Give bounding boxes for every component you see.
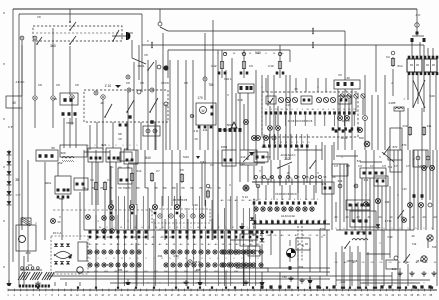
dash box 40 xyxy=(152,209,210,223)
wire ext15 xyxy=(147,188,149,240)
wire v12 xyxy=(253,199,255,230)
wire e2 xyxy=(34,100,36,128)
switch r5 xyxy=(383,153,385,155)
wire lv3 xyxy=(65,282,67,286)
motor box 350 xyxy=(16,225,36,251)
diode chain 2 xyxy=(7,191,12,195)
wire e5 xyxy=(102,99,104,125)
wire jh3 xyxy=(154,182,156,204)
svg-text:741: 741 xyxy=(388,165,393,169)
cluster gauge b xyxy=(316,97,321,102)
wire vz11 xyxy=(301,226,303,262)
wire e4 xyxy=(71,99,73,125)
wire z10 xyxy=(140,122,142,150)
switch horn xyxy=(112,40,114,42)
conn z6 xyxy=(150,120,153,123)
coil 409 xyxy=(62,157,74,159)
wire jv5 xyxy=(164,219,166,240)
wire vz7 xyxy=(391,272,393,286)
svg-text:F8 F8: F8 F8 xyxy=(161,81,169,85)
wire jh5 xyxy=(201,163,203,213)
wire gv ext2 xyxy=(295,78,297,92)
wire vy19 xyxy=(409,150,411,172)
wire r drop3 xyxy=(417,75,419,104)
wire f10 drop xyxy=(279,70,281,78)
conn bar 212a xyxy=(252,181,322,183)
wire vx11 xyxy=(333,142,335,160)
ignition box Z10 xyxy=(84,90,168,122)
node F conn x303 b xyxy=(312,43,314,48)
panel top edge xyxy=(168,49,290,51)
lamp row M4 xyxy=(164,250,168,254)
svg-text:35: 35 xyxy=(15,178,19,182)
conn z4 xyxy=(128,115,131,118)
connector I2 xyxy=(69,98,72,102)
connector zc3 xyxy=(94,91,98,95)
switch S2 xyxy=(69,43,71,45)
wire v10 xyxy=(239,160,241,182)
wire ov7 xyxy=(389,246,391,258)
wire v9 xyxy=(225,160,227,230)
wire hv11 xyxy=(429,100,431,150)
wire vx5 xyxy=(225,70,227,160)
wire f2w xyxy=(207,125,209,150)
wire vy6 xyxy=(381,186,383,230)
svg-text:ND: ND xyxy=(118,132,122,136)
wire vx8 xyxy=(273,75,275,160)
wire fv4 xyxy=(162,33,164,150)
wire j2v4 xyxy=(281,185,283,200)
wire vx2 xyxy=(192,60,194,150)
coil 859 xyxy=(352,239,368,241)
lamp right x xyxy=(358,128,363,133)
wire m bund1 xyxy=(55,271,330,273)
svg-text:C H: C H xyxy=(346,165,350,168)
lamp k1 xyxy=(408,203,413,208)
horn H1 xyxy=(112,35,126,37)
lamp j2 xyxy=(129,204,134,209)
wire jv6 xyxy=(175,219,177,240)
node F conn x303 a xyxy=(312,29,314,34)
link h4 xyxy=(84,151,110,153)
wire drop x376 xyxy=(375,45,377,92)
link h7 xyxy=(84,229,226,231)
connector r3 xyxy=(426,156,430,160)
wire j2v7 xyxy=(305,185,307,200)
wire fv3 xyxy=(147,60,149,150)
fuse F8x xyxy=(180,175,183,182)
svg-text:59: 59 xyxy=(51,146,55,150)
wire kv4 xyxy=(361,178,363,230)
wire m bund4 xyxy=(110,282,260,284)
connector K3 xyxy=(158,22,162,26)
wire vy18 xyxy=(401,150,403,172)
wire vx3 xyxy=(212,20,214,150)
svg-text:F7: F7 xyxy=(156,169,160,173)
lamp h2 xyxy=(345,116,350,121)
wire m bund2 xyxy=(48,275,392,277)
link h9 xyxy=(366,253,390,255)
gnd b4 xyxy=(37,281,39,283)
wire z9 xyxy=(126,122,128,150)
bridge d2 xyxy=(60,243,64,246)
link h5 xyxy=(336,229,414,231)
svg-text:F8: F8 xyxy=(140,81,144,85)
wire w1 xyxy=(21,40,23,82)
ruler stubs 2 xyxy=(260,285,263,288)
wire ov4 xyxy=(365,230,367,286)
wire nv5 xyxy=(261,244,263,268)
connector O5 xyxy=(394,256,398,260)
lamp g4 xyxy=(264,136,269,141)
wire gv6 xyxy=(277,106,279,125)
svg-text:310: 310 xyxy=(341,280,346,284)
lamp g2 xyxy=(252,136,257,141)
wire fv6 xyxy=(177,60,179,150)
wire ext8 xyxy=(235,93,237,150)
wire z7 xyxy=(96,122,98,148)
wiper motor xyxy=(200,107,207,114)
svg-text:40: 40 xyxy=(54,97,58,101)
wire vy4 xyxy=(365,150,367,230)
wire vy11 xyxy=(429,150,431,200)
switch r8 xyxy=(344,247,346,249)
wire v34 xyxy=(319,276,321,286)
wire m bund3 xyxy=(60,278,330,280)
switch 212 xyxy=(278,162,292,168)
wire vz2 xyxy=(351,252,353,286)
svg-text:614: 614 xyxy=(397,64,402,68)
relay 614 pins bot xyxy=(408,72,411,75)
svg-text:50: 50 xyxy=(12,101,16,105)
wire iv2 xyxy=(44,162,46,230)
fuse F13 xyxy=(408,128,411,135)
svg-text:J: J xyxy=(403,99,404,101)
conn pair f10 xyxy=(276,72,279,75)
wire kv5 xyxy=(369,178,371,230)
wire comb low xyxy=(117,231,119,286)
wire j2v6 xyxy=(297,185,299,200)
wire v2 xyxy=(109,150,111,205)
wire vx0 xyxy=(133,62,135,150)
wire e8 xyxy=(75,118,77,148)
conn O1 xyxy=(353,219,356,222)
wire gv1 xyxy=(231,58,233,150)
wire kv12 xyxy=(425,150,427,230)
wire hv2 xyxy=(344,89,346,115)
relay K xyxy=(240,150,257,165)
res rail xyxy=(20,269,42,271)
wire ov6 xyxy=(381,230,383,260)
relay H1 xyxy=(334,80,360,89)
res pins xyxy=(19,285,21,288)
wire vy1 xyxy=(343,164,345,222)
wire vy12 xyxy=(436,150,438,286)
wiper box xyxy=(196,103,216,125)
wire vy17 xyxy=(393,150,395,164)
wire f2 drop xyxy=(392,69,394,96)
bridge d4b xyxy=(66,261,70,264)
wire j2v1 xyxy=(257,185,259,200)
connector pair d1 xyxy=(411,38,414,42)
wire gv5 xyxy=(269,106,271,125)
wire v19 xyxy=(315,145,317,193)
bridge d4 xyxy=(60,261,64,264)
box 763 xyxy=(118,168,132,184)
wire nv6 xyxy=(270,230,272,255)
wire jv9 xyxy=(211,219,213,240)
conn row M5 xyxy=(165,230,168,233)
cluster pins 2 xyxy=(332,127,335,130)
connector E4 xyxy=(101,95,105,99)
svg-text:A O: A O xyxy=(416,13,421,17)
wire vz5 xyxy=(375,230,377,286)
wire vx7 xyxy=(267,75,269,106)
wire bus 15 y31 xyxy=(168,30,345,32)
wire z11 xyxy=(154,122,156,150)
wire vy2 xyxy=(351,204,353,222)
diode rr xyxy=(376,224,380,228)
wire kv6 xyxy=(377,178,379,230)
relay 783 xyxy=(55,176,71,194)
wire gv ext5 xyxy=(325,78,327,92)
wire bus 15a y45 xyxy=(142,44,376,46)
gnd tri a xyxy=(125,282,130,285)
wire 614 up1 xyxy=(411,42,413,56)
wire vy7 xyxy=(389,186,391,246)
wire oh2 xyxy=(360,282,420,284)
diode 212b xyxy=(260,230,264,233)
wire jh4 xyxy=(176,183,178,204)
wire gv7 xyxy=(269,131,271,160)
connector k3 xyxy=(428,203,432,207)
box 757 xyxy=(248,246,260,256)
lamp row N3 xyxy=(222,263,226,267)
wire v15 xyxy=(279,160,281,186)
wire e1 xyxy=(21,82,23,96)
lamp col a2 xyxy=(110,216,115,221)
wire nv1 xyxy=(225,230,227,255)
gnd tri c xyxy=(259,282,264,285)
svg-text:F11: F11 xyxy=(427,124,432,128)
wire ov2 xyxy=(349,246,351,286)
fuse F11 xyxy=(422,128,425,135)
wire v8 xyxy=(217,150,219,230)
relay G1 xyxy=(238,84,254,93)
wire v26 xyxy=(175,240,177,286)
lamp row M2 xyxy=(88,250,92,254)
svg-text:870: 870 xyxy=(393,145,398,149)
wire v30 xyxy=(261,272,263,286)
wire vx10 xyxy=(321,142,323,160)
wire ext16 xyxy=(95,243,97,286)
svg-text:F2: F2 xyxy=(386,55,390,59)
link h1 xyxy=(336,155,358,157)
wire nv3 xyxy=(243,230,245,236)
wire ext6 xyxy=(212,150,214,240)
lamp row 212 xyxy=(254,207,258,211)
connector r10 xyxy=(354,184,358,188)
link h2 xyxy=(360,161,382,163)
wire ext5 xyxy=(204,150,206,206)
box 870 xyxy=(388,150,402,160)
box 310 xyxy=(386,260,398,269)
conn 15x xyxy=(69,256,72,259)
wire ext17 xyxy=(117,243,119,286)
wire hv9 xyxy=(407,108,409,150)
wire v31 xyxy=(279,272,281,286)
wire i left xyxy=(8,205,10,283)
wire 614 up3 xyxy=(427,48,429,56)
gnd tri d xyxy=(307,280,312,283)
wire vy8 xyxy=(397,150,399,258)
wire rb6 xyxy=(133,164,135,230)
lamp h4 xyxy=(364,141,370,147)
switch z3 xyxy=(149,111,151,113)
wire 540 mid xyxy=(128,162,265,164)
wire v13 xyxy=(261,230,263,240)
svg-text:5191: 5191 xyxy=(183,155,189,159)
resistor h xyxy=(394,107,404,111)
svg-text:F185: F185 xyxy=(389,101,396,105)
svg-text:1 63: 1 63 xyxy=(401,187,407,191)
wire j2v8 xyxy=(313,185,315,200)
lamp g1 xyxy=(244,120,249,125)
wire rb5 xyxy=(127,164,129,230)
wire hv5 xyxy=(371,95,373,150)
svg-text:211: 211 xyxy=(203,128,208,132)
wire f1 xyxy=(199,125,201,150)
connector h3 xyxy=(363,116,368,121)
lamp O3 xyxy=(421,256,427,262)
svg-text:F8: F8 xyxy=(56,83,60,87)
connector E1 xyxy=(33,96,37,100)
motor 15 xyxy=(77,267,83,273)
box right 2 xyxy=(413,150,428,167)
svg-text:C H: C H xyxy=(334,165,338,168)
svg-text:511: 511 xyxy=(357,159,362,163)
diode chain xyxy=(7,151,12,155)
wire vx6 xyxy=(255,70,257,160)
tall box right xyxy=(390,128,402,172)
wire j2v5 xyxy=(289,185,291,200)
wire ext12 xyxy=(44,230,46,240)
svg-text:7 80: 7 80 xyxy=(281,275,287,279)
wire vx1 xyxy=(155,60,157,150)
connector gc xyxy=(272,136,276,140)
wire vy10 xyxy=(421,150,423,200)
wire ov1 xyxy=(341,246,343,286)
wire v25 xyxy=(153,240,155,286)
wire v5 xyxy=(144,150,146,188)
bridge arcs xyxy=(54,252,72,257)
lamp r11 xyxy=(364,202,369,207)
wire ext2 xyxy=(171,178,173,206)
svg-text:170: 170 xyxy=(197,96,203,100)
wire ext13 xyxy=(253,166,255,180)
switch S3 xyxy=(36,43,38,45)
wiper pins xyxy=(198,126,201,129)
wire v20 xyxy=(324,145,326,230)
connector ign1 xyxy=(146,129,150,133)
wire r drop5 xyxy=(429,75,431,100)
wire kv11 xyxy=(417,150,419,230)
connector c1 xyxy=(223,52,226,55)
wire vz10 xyxy=(297,226,299,262)
wire v0 xyxy=(95,150,97,205)
fuse F7 xyxy=(150,174,153,181)
wire left border 2 xyxy=(18,14,20,287)
wire nv12 xyxy=(326,230,328,276)
bridge d3 xyxy=(54,261,58,264)
wire fv2 xyxy=(138,45,140,80)
wire nv8 xyxy=(289,240,291,246)
wire fuse feed xyxy=(221,50,223,60)
wire vz0 xyxy=(335,252,337,286)
wire oh1 xyxy=(336,279,430,281)
wire n step xyxy=(260,267,268,269)
box 163b xyxy=(346,200,370,210)
wire w3 xyxy=(69,46,71,95)
wire vx13 xyxy=(348,98,350,115)
wire e7 xyxy=(69,118,71,148)
lamp O2 xyxy=(427,235,433,241)
fuse F2 xyxy=(391,59,394,66)
wire vx12 xyxy=(339,98,341,115)
wire hv4 xyxy=(364,75,366,115)
gnd O6 xyxy=(399,271,401,273)
wire gv ext3 xyxy=(305,78,307,92)
link h3 xyxy=(294,149,322,151)
box 40 left xyxy=(60,93,78,105)
wire gv ext4 xyxy=(317,78,319,92)
switch O4 xyxy=(403,261,405,263)
wire nv7 xyxy=(279,230,281,268)
cluster stubs xyxy=(265,115,267,126)
connector row H xyxy=(340,94,344,98)
wire ext4 xyxy=(192,150,194,206)
wire hv8 xyxy=(399,111,401,150)
svg-text:F10: F10 xyxy=(268,64,274,68)
cluster gauge a xyxy=(278,97,283,102)
wire f0b xyxy=(204,81,206,100)
wire rb2 xyxy=(97,162,99,205)
wire ov10 xyxy=(427,238,429,248)
wire vx14 xyxy=(355,98,357,112)
resistor pack xyxy=(18,272,23,280)
svg-text:F8 F8 F8 F8 F8 F8 F8: F8 F8 F8 F8 F8 F8 F8 xyxy=(288,120,313,123)
connector F1 xyxy=(211,106,214,109)
wire w2 xyxy=(34,40,36,95)
wire vx9 xyxy=(289,75,291,160)
wire ov8 xyxy=(397,262,399,286)
wire hv7 xyxy=(384,75,386,150)
wire v23 xyxy=(89,125,91,150)
wire top bus 30 xyxy=(13,8,417,10)
box 859 xyxy=(350,211,376,227)
ruler ticks xyxy=(7,289,9,292)
bridge d1 xyxy=(54,243,58,246)
wire lv4 xyxy=(79,282,81,286)
connector E3 xyxy=(70,95,74,99)
wire ext9 xyxy=(243,104,245,150)
ruler stubs 3 xyxy=(343,286,345,288)
relay 614 pins top xyxy=(408,56,411,59)
wire fv5 xyxy=(169,60,171,150)
wire jv3 xyxy=(135,215,137,240)
connector I1 xyxy=(63,98,66,102)
box 213 xyxy=(222,150,236,166)
